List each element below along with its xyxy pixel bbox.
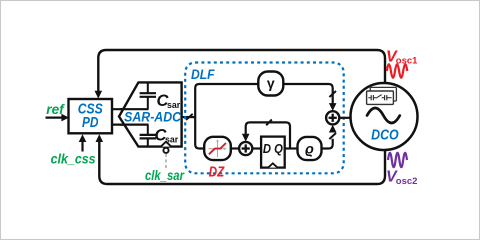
capacitor C_sar top: [147, 82, 149, 93]
bus slash gamma path: [329, 91, 336, 97]
cap-bank inner: cap, switch, cap: [368, 97, 371, 99]
DZ dead-zone curve: [209, 143, 226, 154]
summer S1: [239, 142, 252, 155]
arrowhead into summer2 bottom: [329, 125, 337, 133]
svg-text:DLF: DLF: [191, 66, 215, 82]
wire gamma to summer2 top: [283, 84, 332, 104]
wire upper stub inside: [120, 108, 149, 110]
wire feedback from DQ output node to summer1: [246, 122, 290, 148]
block SAR-ADC: [119, 82, 182, 146]
DCO sine symbol: [367, 108, 400, 123]
wire CSS PD to SAR upper stub: [112, 108, 149, 110]
svg-text:clk_sar: clk_sar: [145, 168, 185, 183]
arrowhead into CSS PD bottom (feedback): [96, 134, 104, 142]
arrowhead into summer2 top: [329, 103, 337, 111]
bus slash on DLF input: [186, 114, 193, 120]
block DLF dashed boundary: [185, 63, 344, 174]
wire DFF to rho with junction node: [285, 147, 298, 149]
clock bubble: [163, 148, 168, 153]
node V_osc2: [388, 153, 407, 167]
clock triangle on DQ: [268, 163, 277, 167]
svg-text:γ: γ: [267, 75, 275, 91]
bus slash rho path: [329, 133, 336, 139]
cap-bank icon back rect: [370, 87, 396, 101]
wire clk_css arrow: [81, 141, 83, 152]
wire clk_sar dashed: [165, 154, 167, 169]
wire rho to summer2 bottom: [322, 139, 333, 149]
oscillator DCO: [351, 83, 418, 150]
arrowhead into summer1 top: [242, 134, 250, 142]
capacitor C_sar bottom: [147, 125, 149, 135]
cap-bank icon front rect: [367, 91, 394, 104]
svg-text:SAR-ADC: SAR-ADC: [124, 109, 181, 124]
block rho: [298, 137, 322, 160]
wire CSS PD to SAR lower stub: [112, 123, 149, 125]
arrowhead into CSS PD top: [95, 91, 103, 99]
summer S2: [326, 111, 339, 124]
block CSS PD: [69, 99, 113, 133]
flip-flop DQ: [261, 137, 285, 168]
clock triangle on SAR-ADC: [161, 142, 171, 147]
V_osc1 squiggle: [387, 64, 408, 78]
wire DZ to summer1: [231, 147, 239, 149]
DZ axes: [217, 140, 219, 157]
svg-text:PD: PD: [82, 115, 99, 131]
wire: top feedback from DCO to CSS PD: [98, 50, 385, 92]
svg-text:DZ: DZ: [209, 164, 225, 180]
svg-text:DCO: DCO: [371, 128, 399, 144]
wire branch vertical to gamma path and DZ: [195, 84, 258, 149]
block DZ: [204, 137, 231, 160]
block gamma: [258, 72, 283, 96]
wire: bottom feedback from DCO to CSS PD: [99, 141, 385, 184]
wire summer2 to DCO: [339, 117, 351, 119]
wire summer1 to DFF: [252, 147, 261, 149]
svg-text:osc2: osc2: [396, 176, 418, 187]
svg-text:D Q: D Q: [263, 141, 283, 156]
svg-text:ϱ: ϱ: [305, 141, 314, 157]
wire ref arrow: [46, 116, 63, 118]
wire SAR-ADC to DLF input: [182, 116, 196, 118]
wire lower stub inside: [120, 123, 149, 125]
svg-text:clk_css: clk_css: [51, 151, 96, 166]
bus slash on feedback: [266, 120, 272, 126]
